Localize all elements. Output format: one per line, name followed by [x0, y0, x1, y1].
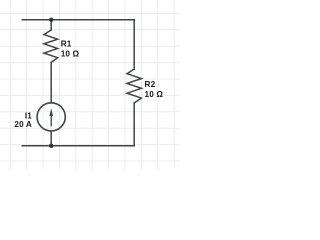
resistor R1 — [44, 30, 58, 62]
wire left top (node to R1) — [50, 20, 52, 30]
svg-text:10 Ω: 10 Ω — [145, 90, 164, 99]
resistor R2 — [127, 69, 141, 103]
current source I1 circle — [37, 103, 65, 131]
wire bottom horizontal — [22, 145, 134, 147]
node junction dot top — [49, 18, 53, 22]
svg-text:R2: R2 — [145, 80, 156, 89]
current source I1 arrow — [49, 108, 53, 126]
wire left bottom (I1 to bottom wire) — [50, 131, 52, 146]
wire right vertical (top lead to R2) — [133, 20, 135, 69]
wire left middle (R1 to I1) — [50, 62, 52, 103]
svg-text:R1: R1 — [61, 40, 72, 49]
svg-text:20 A: 20 A — [14, 120, 32, 129]
wire right vertical (R2 to bottom) — [133, 103, 135, 146]
wire top horizontal — [22, 19, 134, 21]
svg-text:10 Ω: 10 Ω — [61, 50, 80, 59]
node junction dot bottom — [49, 144, 53, 148]
